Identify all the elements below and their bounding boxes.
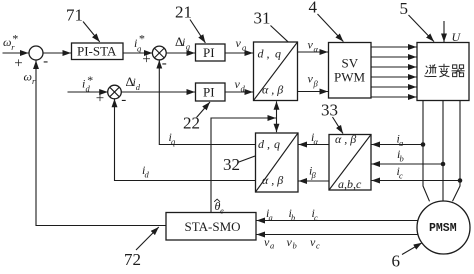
svg-text:PMSM: PMSM (429, 222, 457, 235)
svg-text:STA-SMO: STA-SMO (185, 219, 241, 234)
svg-text:PI: PI (203, 45, 215, 60)
svg-text:q: q (242, 43, 247, 53)
svg-text:22: 22 (183, 114, 200, 133)
svg-text:d: d (145, 170, 150, 180)
svg-text:c: c (316, 241, 320, 251)
svg-text:d ,: d , (258, 137, 270, 151)
svg-text:71: 71 (66, 6, 83, 25)
svg-text:q: q (275, 47, 281, 61)
svg-text:33: 33 (321, 101, 338, 120)
svg-text:c: c (399, 171, 403, 181)
svg-text:a: a (270, 241, 274, 251)
svg-text:α: α (314, 137, 319, 147)
svg-text:e: e (220, 206, 224, 216)
svg-text:SV: SV (342, 55, 359, 70)
svg-text:-: - (43, 54, 48, 70)
svg-text:21: 21 (175, 3, 192, 22)
svg-text:PWM: PWM (334, 69, 366, 84)
svg-text:b: b (400, 154, 404, 164)
svg-text:32: 32 (223, 155, 240, 174)
svg-text:ω: ω (3, 35, 11, 49)
svg-text:PI: PI (203, 84, 215, 99)
svg-text:+: + (96, 91, 104, 107)
svg-text:4: 4 (309, 0, 318, 17)
svg-text:α , β: α , β (262, 83, 283, 97)
svg-text:-: - (162, 55, 167, 71)
svg-text:PI-STA: PI-STA (77, 44, 117, 59)
svg-text:72: 72 (124, 250, 141, 269)
svg-text:β: β (311, 170, 317, 180)
svg-text:c: c (314, 213, 318, 223)
svg-text:q: q (274, 137, 280, 151)
svg-text:-: - (121, 92, 126, 108)
svg-text:+: + (14, 56, 22, 72)
svg-text:α , β: α , β (335, 132, 356, 146)
svg-text:a: a (269, 213, 273, 223)
svg-text:U: U (452, 30, 462, 44)
svg-text:d: d (136, 82, 141, 92)
svg-text:β: β (313, 79, 319, 89)
svg-text:b: b (291, 213, 295, 223)
svg-text:α: α (314, 44, 319, 54)
svg-text:r: r (32, 76, 36, 86)
svg-text:+: + (142, 52, 150, 68)
svg-text:ω: ω (24, 70, 32, 84)
svg-text:6: 6 (392, 252, 401, 271)
svg-text:d ,: d , (258, 47, 270, 61)
svg-text:31: 31 (254, 9, 271, 28)
svg-text:b: b (293, 241, 297, 251)
svg-text:v: v (236, 36, 242, 50)
svg-text:q: q (186, 42, 191, 52)
svg-text:5: 5 (400, 0, 409, 18)
svg-text:*: * (12, 31, 18, 45)
svg-text:a,b,c: a,b,c (338, 177, 362, 191)
svg-text:α , β: α , β (262, 173, 283, 187)
